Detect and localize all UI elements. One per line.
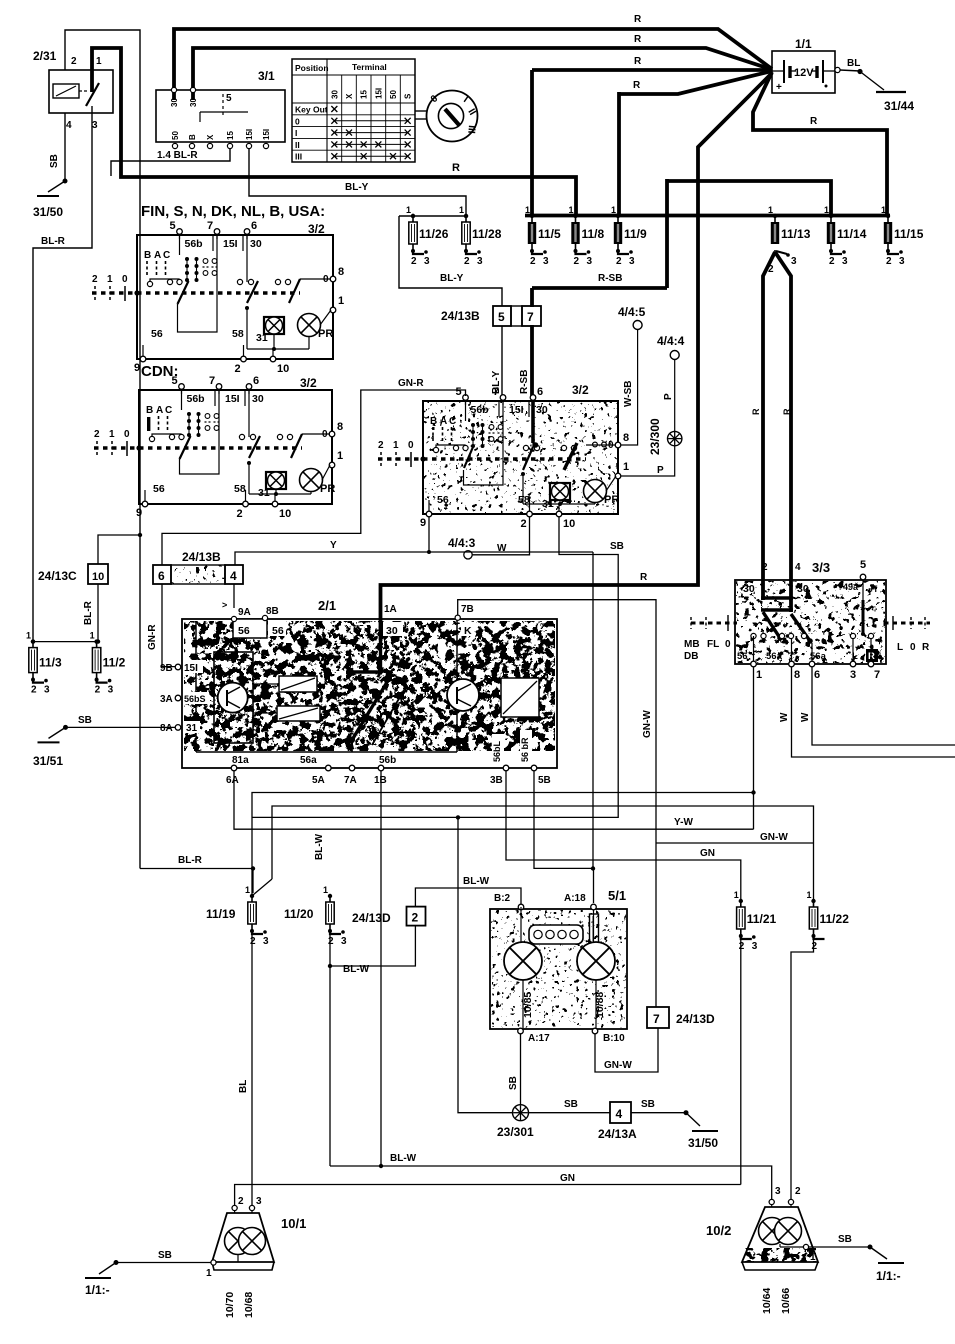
switch 3/2 mechanical dashed line xyxy=(94,446,302,449)
svg-text:4: 4 xyxy=(230,569,237,583)
svg-text:15I: 15I xyxy=(262,129,271,140)
svg-text:2: 2 xyxy=(378,440,384,451)
cluster 5/1 terminal B:2 xyxy=(518,904,524,910)
svg-text:30: 30 xyxy=(170,98,179,107)
wire Y-W from 2/1 6A to 3/3 terminal 1 node xyxy=(234,771,754,829)
switch 3/2 contact arms xyxy=(464,447,473,468)
cluster 5/1 connector strip symbol xyxy=(529,925,583,944)
svg-text:30: 30 xyxy=(330,90,339,99)
svg-text:11/9: 11/9 xyxy=(624,227,647,241)
svg-text:B: B xyxy=(144,250,151,261)
svg-text:C: C xyxy=(165,405,172,416)
svg-text:8A: 8A xyxy=(160,723,173,734)
svg-text:2: 2 xyxy=(521,518,527,530)
svg-text:II: II xyxy=(295,140,300,150)
wire BL fuse 11/19 to lamp 10/1 terminal 3 xyxy=(251,931,253,1205)
svg-text:49a: 49a xyxy=(843,582,859,592)
lamp 10/1 body xyxy=(212,1213,274,1262)
svg-text:15: 15 xyxy=(360,90,369,99)
svg-text:R: R xyxy=(633,80,641,91)
svg-text:2: 2 xyxy=(412,911,419,925)
relay unit 2/1 left terminal 3A xyxy=(175,695,181,701)
svg-text:B:10: B:10 xyxy=(603,1033,625,1044)
svg-text:1: 1 xyxy=(756,669,762,681)
svg-text:2: 2 xyxy=(71,56,77,67)
svg-text:7: 7 xyxy=(209,375,215,387)
svg-text:10/85: 10/85 xyxy=(522,992,534,1018)
wire 2/1 3B-node line to fuse 11/19 (y792) xyxy=(252,793,754,897)
svg-text:5: 5 xyxy=(170,220,176,232)
svg-text:24/13A: 24/13A xyxy=(598,1127,637,1141)
svg-text:1: 1 xyxy=(623,461,629,473)
svg-text:10/1: 10/1 xyxy=(281,1216,306,1231)
svg-text:2: 2 xyxy=(92,274,98,285)
svg-text:MB: MB xyxy=(684,639,700,650)
relay unit 2/1 relay coils xyxy=(279,676,317,692)
wire GN fuse 11/21 to GN line xyxy=(740,936,742,1185)
svg-text:Y: Y xyxy=(330,540,337,551)
svg-text:31: 31 xyxy=(186,723,198,734)
svg-text:30: 30 xyxy=(743,583,755,595)
switch 3/2 top terminals 5 7 6 xyxy=(177,229,183,235)
svg-text:3: 3 xyxy=(256,1196,262,1207)
svg-text:1A: 1A xyxy=(384,604,397,615)
svg-text:58: 58 xyxy=(232,328,244,340)
wire W from 3/3 terminal 6 xyxy=(812,667,955,745)
svg-text:SB: SB xyxy=(610,541,624,552)
svg-text:1: 1 xyxy=(569,205,574,215)
svg-text:S: S xyxy=(404,93,413,99)
svg-text:GN: GN xyxy=(700,848,715,859)
svg-text:3: 3 xyxy=(92,120,98,131)
svg-text:A: A xyxy=(156,405,163,416)
switch 3/2 internal wiring xyxy=(179,236,181,255)
svg-text:7: 7 xyxy=(874,669,880,681)
switch 3/2 thick internal 30 conductor xyxy=(531,401,535,443)
ignition position table xyxy=(292,59,415,162)
svg-text:10/66: 10/66 xyxy=(780,1288,792,1314)
svg-text:2: 2 xyxy=(812,941,818,952)
svg-text:31: 31 xyxy=(256,332,268,344)
svg-text:SB: SB xyxy=(838,1234,852,1245)
svg-text:15: 15 xyxy=(226,131,235,140)
svg-text:GN-R: GN-R xyxy=(398,378,424,389)
wire relay T2 to junction (left long vertical) xyxy=(65,30,140,535)
wire GN-R 24/13B:6 down to 2/1 terminal 9B xyxy=(162,584,175,667)
wire W from 3/3 terminal 8 xyxy=(792,667,955,757)
svg-text:31: 31 xyxy=(258,487,270,499)
svg-text:GN-W: GN-W xyxy=(604,1060,632,1071)
svg-text:1: 1 xyxy=(337,450,343,462)
wire y806 line to fuse 11/22 xyxy=(272,806,814,901)
svg-text:W: W xyxy=(779,712,790,722)
svg-text:3: 3 xyxy=(791,256,797,267)
ignition switch 3/1 bottom terminals xyxy=(172,143,177,148)
svg-text:1: 1 xyxy=(611,205,616,215)
svg-text:24/13B: 24/13B xyxy=(441,309,480,323)
svg-text:6: 6 xyxy=(537,386,543,398)
svg-text:1: 1 xyxy=(338,295,344,307)
relay unit 2/1 main contact arm xyxy=(352,674,392,740)
fuse 11/20 xyxy=(328,894,332,898)
svg-text:R: R xyxy=(634,14,642,25)
svg-text:BL-Y: BL-Y xyxy=(345,182,369,193)
svg-text:3: 3 xyxy=(587,256,593,267)
svg-text:3A: 3A xyxy=(160,694,173,705)
svg-text:2: 2 xyxy=(94,429,100,440)
wire R battery to fuse 11/15 (y130) xyxy=(753,72,887,215)
svg-text:6: 6 xyxy=(814,669,820,681)
connector 24/13B spacer xyxy=(511,306,522,326)
svg-text:1: 1 xyxy=(881,205,886,215)
svg-text:I: I xyxy=(295,128,297,138)
relay unit 2/1 left terminal 8A xyxy=(175,725,181,731)
svg-text:9A: 9A xyxy=(238,607,251,618)
svg-text:56: 56 xyxy=(238,625,250,637)
svg-text:15I: 15I xyxy=(374,88,383,99)
svg-text:11/8: 11/8 xyxy=(582,227,605,241)
wire 2/1 5B to A:18 junction xyxy=(534,771,591,868)
wire fuse 11/22 down to lamp 10/2 terminal 2 xyxy=(791,936,814,1199)
svg-text:8: 8 xyxy=(794,669,800,681)
cluster 5/1 speckle interior xyxy=(491,910,626,1028)
svg-text:2: 2 xyxy=(464,256,470,267)
svg-text:56 bR: 56 bR xyxy=(520,737,530,762)
svg-text:1: 1 xyxy=(393,440,399,451)
relay unit 2/1 bottom terminals xyxy=(231,765,237,771)
wire BL-Y fuse output to connector 24/13B:5 xyxy=(399,216,502,306)
svg-text:9: 9 xyxy=(420,517,426,529)
svg-text:3/3: 3/3 xyxy=(812,560,830,575)
svg-text:1: 1 xyxy=(26,631,31,641)
svg-text:5: 5 xyxy=(456,386,462,398)
svg-text:2: 2 xyxy=(235,363,241,375)
switch 3/2 31-node wiring xyxy=(522,474,524,504)
svg-text:2/1: 2/1 xyxy=(318,598,336,613)
svg-text:1: 1 xyxy=(206,1268,212,1279)
svg-text:C: C xyxy=(163,250,170,261)
svg-text:1: 1 xyxy=(406,205,411,215)
switch 3/2 contact dot columns xyxy=(471,423,475,427)
relay 2/31 contact arm xyxy=(91,70,93,84)
svg-text:3: 3 xyxy=(477,256,483,267)
svg-text:56: 56 xyxy=(437,494,449,506)
switch 3/3 contact circles xyxy=(751,633,756,638)
svg-text:3: 3 xyxy=(752,941,758,952)
wire GN-R from connector 24/13B:6 to 3/2 terminal 5 xyxy=(162,390,466,565)
svg-text:BL-W: BL-W xyxy=(463,876,490,887)
switch 3/2 lamp PR xyxy=(584,480,607,503)
wire GN from lamp 10/1 terminal 2 to fuse 11/21 xyxy=(235,1185,741,1206)
svg-text:4/4:4: 4/4:4 xyxy=(657,334,685,348)
svg-text:9: 9 xyxy=(136,507,142,519)
svg-text:10: 10 xyxy=(279,508,291,520)
cluster 5/1 lamp 10/85 xyxy=(504,942,542,980)
relay unit 2/1 speckle interior xyxy=(184,621,555,751)
ground 1/1:- left xyxy=(114,1260,119,1265)
ground 31/50 top-left xyxy=(63,179,68,184)
wire 2/1 7B GN-W down right side xyxy=(458,600,656,1007)
svg-text:2/31: 2/31 xyxy=(33,49,57,63)
switch 3/2 box xyxy=(423,401,618,514)
svg-text:0: 0 xyxy=(122,274,128,285)
switch 3/3 terminal 5 stub xyxy=(862,580,864,600)
svg-text:56b: 56b xyxy=(187,393,205,405)
connector 24/13B pin 5 xyxy=(493,306,511,326)
svg-text:SB: SB xyxy=(508,1076,519,1090)
svg-text:A:18: A:18 xyxy=(564,893,586,904)
svg-text:11/28: 11/28 xyxy=(472,227,502,241)
svg-text:4: 4 xyxy=(66,120,72,131)
svg-text:PR: PR xyxy=(318,328,333,340)
svg-text:24/13B: 24/13B xyxy=(182,550,221,564)
svg-text:10/88: 10/88 xyxy=(594,992,606,1018)
svg-text:0: 0 xyxy=(910,642,916,653)
svg-text:8: 8 xyxy=(623,432,629,444)
lamp 10/2 bulbs xyxy=(759,1218,786,1245)
svg-text:15I: 15I xyxy=(225,393,240,405)
svg-text:23/301: 23/301 xyxy=(497,1125,534,1139)
svg-text:3: 3 xyxy=(341,936,347,947)
svg-text:15I: 15I xyxy=(184,663,198,674)
svg-text:1: 1 xyxy=(824,205,829,215)
fuse 11/13 xyxy=(773,214,777,218)
fuse 11/2 xyxy=(94,639,98,643)
svg-text:11/3: 11/3 xyxy=(39,656,62,670)
lamp 10/2 body xyxy=(742,1207,818,1262)
lamp 10/1 terminals 2 3 xyxy=(232,1205,237,1210)
ground 1/1:- right xyxy=(868,1245,873,1250)
svg-text:GN-R: GN-R xyxy=(147,624,158,650)
wire Y/BL-R junction down to cluster A:18 xyxy=(592,552,594,869)
connector 24/13C pin 10 xyxy=(88,564,108,584)
svg-text:2: 2 xyxy=(250,936,256,947)
svg-text:BL-R: BL-R xyxy=(178,855,203,866)
svg-text:11/19: 11/19 xyxy=(206,907,236,921)
svg-text:GN-W: GN-W xyxy=(760,832,788,843)
svg-text:1: 1 xyxy=(96,56,102,67)
svg-text:3/2: 3/2 xyxy=(308,222,325,236)
svg-text:B: B xyxy=(430,416,437,427)
svg-text:B: B xyxy=(188,134,197,140)
svg-text:0: 0 xyxy=(295,116,300,126)
wire R-SB below connector to switch 3/2 terminal 6 xyxy=(530,325,534,399)
wire R-SB horizontal to connector 24/13B:7 xyxy=(532,286,667,290)
svg-text:III: III xyxy=(295,152,302,162)
switch 3/3 dashed mechanical line right xyxy=(884,622,930,625)
cluster 5/1 lamp 10/88 xyxy=(577,942,615,980)
lamp 10/1 terminal 1 and SB wire xyxy=(211,1260,216,1265)
relay unit 2/1 terminal 7B xyxy=(455,615,460,620)
svg-text:1: 1 xyxy=(323,885,328,895)
ignition switch 3/1 terminal 30 wire A xyxy=(174,29,772,100)
svg-text:30: 30 xyxy=(386,625,398,637)
fuse 11/3 xyxy=(31,639,35,643)
svg-text:R: R xyxy=(922,642,930,653)
svg-text:81a: 81a xyxy=(232,755,249,766)
switch 3/2 lamp PR xyxy=(298,314,321,337)
relay unit 2/1 thick internal conductor xyxy=(352,640,381,672)
svg-text:1: 1 xyxy=(459,205,464,215)
svg-text:III: III xyxy=(465,125,477,134)
switch 3/2 contact dot columns xyxy=(185,257,189,261)
svg-text:A: A xyxy=(154,250,161,261)
relay unit 2/1 top terminal 9A xyxy=(231,616,236,621)
wire 24/13C:10 up to junction xyxy=(98,535,140,564)
switch 3/2 lamp square symbol xyxy=(550,483,570,500)
svg-text:2: 2 xyxy=(328,936,334,947)
cluster 5/1 fuse symbol xyxy=(590,914,599,943)
svg-text:2: 2 xyxy=(795,1186,801,1197)
svg-text:30: 30 xyxy=(252,393,264,405)
svg-text:SB: SB xyxy=(564,1099,578,1110)
wire BL-R to fuse 11/19 xyxy=(140,868,253,870)
lamp 10/2 terminals 3 2 xyxy=(769,1199,774,1204)
svg-text:PR: PR xyxy=(604,494,619,506)
lamp 10/1 bulbs xyxy=(225,1228,252,1255)
svg-text:5: 5 xyxy=(172,375,178,387)
svg-text:8B: 8B xyxy=(266,606,279,617)
lamp 23/301 xyxy=(513,1105,529,1121)
svg-text:1: 1 xyxy=(245,885,250,895)
svg-text:56a: 56a xyxy=(300,755,317,766)
svg-text:FIN, S, N, DK, NL, B, USA:: FIN, S, N, DK, NL, B, USA: xyxy=(141,203,325,220)
svg-text:15I: 15I xyxy=(223,238,238,250)
svg-text:2: 2 xyxy=(829,256,835,267)
svg-text:2: 2 xyxy=(237,508,243,520)
svg-text:10: 10 xyxy=(563,518,575,530)
svg-text:23/300: 23/300 xyxy=(648,418,662,455)
svg-text:R: R xyxy=(634,34,642,45)
relay 2/31 coil xyxy=(53,84,79,98)
switch 3/2 right terminals 0/8 and 1 xyxy=(329,431,335,437)
svg-text:Y-W: Y-W xyxy=(674,817,693,828)
wire P from lamp 23/300 to 3/2 terminal 1 xyxy=(621,446,675,476)
ground 31/51 with SB wire to 2/1 terminal 8A xyxy=(66,726,176,728)
wire joining fuse 11/26 and 11/28 terminals 1 xyxy=(399,215,466,217)
svg-text:7: 7 xyxy=(207,220,213,232)
wire relay T1 thick to fuse rail (R) xyxy=(92,48,576,215)
svg-text:31/44: 31/44 xyxy=(884,99,914,113)
svg-text:5: 5 xyxy=(226,93,232,104)
svg-text:BL: BL xyxy=(847,58,860,69)
svg-text:58: 58 xyxy=(234,483,246,495)
fuse 11/9 xyxy=(616,214,620,218)
svg-text:11/5: 11/5 xyxy=(538,227,561,241)
svg-text:R-SB: R-SB xyxy=(519,370,530,394)
wire BL-Y below connector to switch 3/2 terminal 7 xyxy=(501,326,503,399)
switch 3/2 box xyxy=(139,390,332,504)
svg-text:5B: 5B xyxy=(538,775,551,786)
wire Y from 24/13B:4 to junction x593 xyxy=(235,552,593,565)
svg-text:Terminal: Terminal xyxy=(352,62,387,72)
svg-text:2: 2 xyxy=(616,256,622,267)
cluster 5/1 terminal B:10 xyxy=(592,1028,598,1034)
svg-text:2: 2 xyxy=(95,685,101,696)
switch 3/2 bottom terminals 9 2 10 xyxy=(142,501,148,507)
svg-text:24/13C: 24/13C xyxy=(38,569,77,583)
svg-text:3: 3 xyxy=(543,256,549,267)
svg-text:10/70: 10/70 xyxy=(224,1292,236,1318)
svg-text:DB: DB xyxy=(684,651,698,662)
svg-text:R: R xyxy=(452,162,460,174)
svg-text:1: 1 xyxy=(109,429,115,440)
ground 31/44 xyxy=(857,69,862,74)
switch 3/2 contact circles row xyxy=(169,434,174,439)
switch 3/2 top terminals 5 7 6 xyxy=(463,395,469,401)
wire BL-W from 5/1 B:2 to connector 24/13D:2 xyxy=(415,888,521,907)
svg-text:1/1:-: 1/1:- xyxy=(85,1283,110,1297)
svg-text:1: 1 xyxy=(810,1252,816,1263)
svg-text:A: A xyxy=(440,416,447,427)
svg-text:0: 0 xyxy=(408,440,414,451)
svg-text:10/68: 10/68 xyxy=(243,1292,255,1318)
svg-text:10: 10 xyxy=(277,363,289,375)
svg-text:2: 2 xyxy=(238,1196,244,1207)
svg-text:4: 4 xyxy=(616,1107,623,1121)
svg-text:P: P xyxy=(663,393,674,400)
wire R rail to 11/14 feed (y181) xyxy=(667,181,831,215)
switch 3/2 bottom terminals 9 2 10 xyxy=(140,356,146,362)
svg-text:1.4 BL-R: 1.4 BL-R xyxy=(157,150,198,161)
switch 3/2 right terminals 0/8 and 1 xyxy=(330,276,336,282)
switch 3/2 internal wiring xyxy=(465,402,467,421)
svg-text:24/13D: 24/13D xyxy=(676,1012,715,1026)
wire R battery to x619 (y93) xyxy=(619,71,772,94)
svg-text:+: + xyxy=(776,82,782,93)
svg-text:30: 30 xyxy=(250,238,262,250)
svg-text:GN: GN xyxy=(560,1173,575,1184)
wire GN-W from B:10 to connector 24/13D:7 xyxy=(595,1028,658,1072)
svg-text:11/20: 11/20 xyxy=(284,907,314,921)
switch 3/2 lamp square symbol xyxy=(266,472,286,489)
ignition switch 3/1 box xyxy=(156,90,285,142)
svg-text:BL-R: BL-R xyxy=(41,236,66,247)
svg-text:11/2: 11/2 xyxy=(103,656,126,670)
connector 24/13B pin 4 xyxy=(225,565,243,584)
svg-text:1: 1 xyxy=(90,631,95,641)
svg-text:3: 3 xyxy=(899,256,905,267)
svg-text:R: R xyxy=(634,56,642,67)
svg-text:0: 0 xyxy=(725,639,731,650)
svg-text:1: 1 xyxy=(768,205,773,215)
svg-text:SB: SB xyxy=(49,154,60,168)
svg-text:2: 2 xyxy=(574,256,580,267)
svg-text:B: B xyxy=(146,405,153,416)
svg-text:PR: PR xyxy=(320,483,335,495)
battery 1/1 box xyxy=(772,51,835,93)
svg-text:A:17: A:17 xyxy=(528,1033,550,1044)
svg-text:BL-W: BL-W xyxy=(343,964,370,975)
svg-text:2: 2 xyxy=(886,256,892,267)
wire BL-Y from terminal 15I xyxy=(249,149,466,214)
cluster 5/1 terminal A:18 xyxy=(591,904,597,910)
svg-text:6: 6 xyxy=(253,375,259,387)
svg-text:BL-W: BL-W xyxy=(390,1153,417,1164)
svg-text:P: P xyxy=(657,465,664,476)
svg-text:10/2: 10/2 xyxy=(706,1223,731,1238)
wire BL-W fuse 11/20 down xyxy=(329,931,331,1166)
wire battery BL to ground 31/44 xyxy=(840,70,860,71)
svg-text:5: 5 xyxy=(498,310,505,324)
relay unit 2/1 left terminal 9B xyxy=(175,664,181,670)
wire BL-W horizontal to lamp 10/2 terminal 3 xyxy=(330,1166,772,1199)
svg-text:8: 8 xyxy=(338,266,344,278)
switch 3/2 top terminals 5 7 6 xyxy=(179,384,185,390)
wire joining fuses 11/3 11/2 terminals 1 xyxy=(33,641,98,643)
svg-text:3: 3 xyxy=(263,936,269,947)
svg-text:Key Out: Key Out xyxy=(295,105,328,115)
